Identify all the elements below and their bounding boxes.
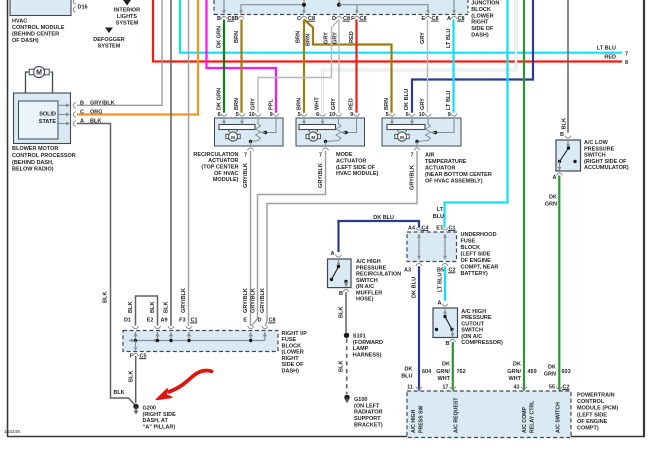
svg-text:GRY: GRY <box>420 32 426 44</box>
svg-text:GRY/BLK: GRY/BLK <box>243 163 249 188</box>
svg-text:LT BLU: LT BLU <box>438 273 444 292</box>
svg-text:459: 459 <box>528 369 537 375</box>
svg-text:7: 7 <box>319 152 322 158</box>
svg-text:DK BLU: DK BLU <box>412 277 418 298</box>
svg-text:ACCUMULATOR): ACCUMULATOR) <box>584 165 629 171</box>
svg-text:(LEFT SIDE: (LEFT SIDE <box>577 412 607 418</box>
svg-text:GRY/BLK: GRY/BLK <box>251 288 257 313</box>
svg-text:DK: DK <box>549 194 557 200</box>
svg-text:WHT: WHT <box>315 97 321 110</box>
svg-text:GRY/BLK: GRY/BLK <box>90 100 115 106</box>
svg-text:DK GRN: DK GRN <box>217 88 223 110</box>
svg-text:C: C <box>80 110 84 116</box>
svg-text:(LEFT SIDE OF: (LEFT SIDE OF <box>336 165 376 171</box>
svg-text:AIR: AIR <box>425 152 435 158</box>
svg-text:STATE: STATE <box>39 119 57 125</box>
svg-text:9: 9 <box>270 112 273 118</box>
svg-text:B: B <box>235 16 239 22</box>
svg-text:(NEAR BOTTOM CENTER: (NEAR BOTTOM CENTER <box>425 172 492 178</box>
svg-text:LAMP: LAMP <box>353 346 369 352</box>
svg-text:RIGHT: RIGHT <box>471 20 489 26</box>
svg-text:604: 604 <box>422 369 432 375</box>
svg-text:SWITCH: SWITCH <box>461 328 483 334</box>
svg-text:LT BLU: LT BLU <box>597 46 616 52</box>
svg-text:(IN A/C: (IN A/C <box>356 284 374 290</box>
svg-text:ACTUATOR: ACTUATOR <box>208 158 238 164</box>
svg-text:CONTROL PROCESSOR: CONTROL PROCESSOR <box>12 153 76 159</box>
svg-text:SUPPORT: SUPPORT <box>354 416 381 422</box>
svg-text:DK: DK <box>513 362 521 368</box>
svg-text:BLOCK: BLOCK <box>282 343 302 349</box>
svg-text:(LEFT SIDE: (LEFT SIDE <box>461 252 491 258</box>
svg-text:7: 7 <box>625 52 628 58</box>
svg-text:(BEHIND CENTER: (BEHIND CENTER <box>12 32 59 38</box>
svg-text:DK: DK <box>405 366 413 372</box>
svg-text:SIDE OF: SIDE OF <box>282 362 305 368</box>
svg-text:HVAC: HVAC <box>12 19 27 25</box>
svg-text:BLK: BLK <box>128 302 134 314</box>
svg-text:A/C HIGH: A/C HIGH <box>356 259 381 265</box>
svg-text:BLU: BLU <box>433 214 444 220</box>
svg-text:(BEHIND DASH,: (BEHIND DASH, <box>12 160 54 166</box>
svg-text:BRN: BRN <box>297 98 303 110</box>
svg-text:55: 55 <box>549 384 555 390</box>
svg-text:GRN: GRN <box>544 372 556 378</box>
svg-text:6: 6 <box>406 112 409 118</box>
svg-text:BLK: BLK <box>150 302 156 314</box>
svg-text:BLK: BLK <box>562 118 568 130</box>
svg-text:DASH): DASH) <box>282 368 300 374</box>
svg-text:“A” PILLAR): “A” PILLAR) <box>143 424 176 430</box>
svg-text:17: 17 <box>442 384 448 390</box>
svg-text:BELOW RADIO): BELOW RADIO) <box>12 167 54 173</box>
svg-text:BATTERY): BATTERY) <box>461 271 488 277</box>
svg-text:9: 9 <box>350 112 353 118</box>
svg-text:BLK: BLK <box>90 119 101 125</box>
svg-text:(TOP CENTER: (TOP CENTER <box>201 165 238 171</box>
svg-text:6: 6 <box>316 112 319 118</box>
svg-text:A/C REQUEST: A/C REQUEST <box>454 397 460 433</box>
svg-text:HOSE): HOSE) <box>356 297 374 303</box>
svg-text:B: B <box>339 291 343 297</box>
svg-text:BLK: BLK <box>129 371 135 383</box>
svg-text:M: M <box>400 135 404 140</box>
svg-text:7: 7 <box>244 152 247 158</box>
svg-text:MUFFLER: MUFFLER <box>356 290 382 296</box>
svg-text:FUSE: FUSE <box>282 337 297 343</box>
svg-text:DEFOGGER: DEFOGGER <box>93 37 125 43</box>
svg-text:PRESSURE: PRESSURE <box>356 265 387 271</box>
svg-text:PRESS SW: PRESS SW <box>419 406 425 433</box>
svg-text:LT BLU: LT BLU <box>446 91 452 110</box>
svg-text:RED: RED <box>604 55 616 61</box>
svg-text:DK GRN: DK GRN <box>217 26 223 48</box>
svg-text:GRY: GRY <box>324 32 330 44</box>
svg-text:E: E <box>243 318 247 324</box>
svg-text:5: 5 <box>236 112 239 118</box>
svg-text:DK BLU: DK BLU <box>404 89 410 110</box>
svg-text:B: B <box>446 341 450 347</box>
svg-text:6: 6 <box>218 112 221 118</box>
svg-text:BRN: BRN <box>384 98 390 110</box>
svg-text:RECIRCULATION: RECIRCULATION <box>356 272 401 278</box>
svg-text:(LOWER: (LOWER <box>282 350 304 356</box>
svg-text:B: B <box>560 132 564 138</box>
svg-text:M: M <box>311 135 315 140</box>
svg-text:LT BLU: LT BLU <box>446 29 452 48</box>
svg-text:43: 43 <box>513 384 519 390</box>
svg-text:INTERIOR: INTERIOR <box>114 8 140 14</box>
svg-text:DK: DK <box>548 364 556 370</box>
svg-text:COMPT): COMPT) <box>577 426 599 432</box>
svg-text:BRN: BRN <box>234 98 240 110</box>
svg-text:SWITCH: SWITCH <box>356 278 378 284</box>
svg-text:OF ENGINE: OF ENGINE <box>577 419 608 425</box>
svg-text:B: B <box>217 16 221 22</box>
svg-text:BLOWER MOTOR: BLOWER MOTOR <box>12 146 58 152</box>
svg-text:A: A <box>80 119 84 125</box>
svg-text:CONTROL: CONTROL <box>577 399 605 405</box>
svg-text:ACTUATOR: ACTUATOR <box>336 158 366 164</box>
svg-text:G100: G100 <box>354 397 367 403</box>
svg-text:A3: A3 <box>404 268 411 274</box>
svg-text:8: 8 <box>625 60 628 66</box>
svg-text:TEMPERATURE: TEMPERATURE <box>425 159 467 165</box>
svg-text:PPL: PPL <box>269 99 275 110</box>
svg-text:A/C COMP: A/C COMP <box>522 407 528 433</box>
svg-text:GRY: GRY <box>420 98 426 110</box>
svg-text:M: M <box>36 70 42 77</box>
svg-text:GRY/BLK: GRY/BLK <box>243 288 249 313</box>
svg-text:OF HVAC ASSEMBLY): OF HVAC ASSEMBLY) <box>425 179 483 185</box>
svg-text:LT: LT <box>437 207 444 213</box>
svg-text:OF DASH): OF DASH) <box>12 38 39 44</box>
svg-text:GRY: GRY <box>331 98 337 110</box>
svg-text:DK: DK <box>442 362 450 368</box>
svg-text:E2: E2 <box>147 318 154 324</box>
svg-text:SWITCH: SWITCH <box>584 153 606 159</box>
svg-text:SYSTEM: SYSTEM <box>98 44 121 50</box>
svg-text:GRY/BLK: GRY/BLK <box>260 288 266 313</box>
svg-text:GRY/BLK: GRY/BLK <box>410 165 416 190</box>
svg-text:GRN/: GRN/ <box>507 369 521 375</box>
svg-text:D: D <box>332 16 336 22</box>
svg-text:D1: D1 <box>124 318 131 324</box>
svg-text:10: 10 <box>249 112 255 118</box>
svg-text:S101: S101 <box>353 334 366 340</box>
svg-text:BRACKET): BRACKET) <box>354 422 383 428</box>
svg-text:F3: F3 <box>179 318 185 324</box>
svg-text:RED: RED <box>349 31 355 43</box>
svg-text:7: 7 <box>410 152 413 158</box>
svg-text:HVAC MODULE): HVAC MODULE) <box>336 171 379 177</box>
svg-text:FUSE: FUSE <box>461 239 476 245</box>
svg-text:COMPT, NEAR: COMPT, NEAR <box>461 265 499 271</box>
svg-text:(FORWARD: (FORWARD <box>353 340 383 346</box>
svg-text:A/C HIGH: A/C HIGH <box>461 309 486 315</box>
svg-text:ACTUATOR: ACTUATOR <box>425 166 455 172</box>
svg-text:A: A <box>331 251 335 257</box>
svg-text:D: D <box>258 318 262 324</box>
svg-text:GRY: GRY <box>251 98 257 110</box>
svg-text:(LOWER: (LOWER <box>471 13 493 19</box>
svg-text:G200: G200 <box>143 406 156 412</box>
svg-text:10: 10 <box>419 112 425 118</box>
svg-text:UNDERHOOD: UNDERHOOD <box>461 232 497 238</box>
svg-text:CUTOUT: CUTOUT <box>461 321 484 327</box>
svg-text:GRY: GRY <box>333 32 339 44</box>
svg-text:JUNCTION: JUNCTION <box>471 1 499 7</box>
svg-text:BRN: BRN <box>296 31 302 43</box>
svg-text:BLK: BLK <box>339 361 345 373</box>
svg-text:HARNESS): HARNESS) <box>353 352 382 358</box>
svg-text:(RIGHT SIDE OF: (RIGHT SIDE OF <box>584 159 627 165</box>
svg-text:DASH): DASH) <box>471 32 489 38</box>
svg-text:BLOCK: BLOCK <box>461 245 481 251</box>
svg-text:GRN/: GRN/ <box>436 369 450 375</box>
svg-text:10: 10 <box>329 112 335 118</box>
svg-text:OF ENGINE: OF ENGINE <box>461 258 492 264</box>
svg-text:RED: RED <box>349 98 355 110</box>
svg-text:BLK: BLK <box>103 292 109 304</box>
svg-text:153246: 153246 <box>4 429 20 435</box>
svg-text:ORG: ORG <box>90 110 103 116</box>
svg-text:WHT: WHT <box>508 376 521 382</box>
svg-text:BLK: BLK <box>164 302 170 314</box>
svg-text:DK BLU: DK BLU <box>373 215 394 221</box>
svg-text:SIDE OF: SIDE OF <box>471 26 494 32</box>
svg-text:CONTROL MODULE: CONTROL MODULE <box>12 25 65 31</box>
svg-text:5: 5 <box>298 112 301 118</box>
svg-text:5: 5 <box>386 112 389 118</box>
svg-text:SOLID: SOLID <box>39 112 56 118</box>
svg-text:E7: E7 <box>436 225 443 231</box>
svg-text:(RIGHT SIDE: (RIGHT SIDE <box>143 412 177 418</box>
svg-text:D16: D16 <box>78 5 88 11</box>
svg-text:MODULE): MODULE) <box>213 177 239 183</box>
svg-text:SYSTEM: SYSTEM <box>116 21 139 27</box>
svg-text:BLK: BLK <box>113 390 124 396</box>
svg-text:A4: A4 <box>408 225 416 231</box>
svg-text:B: B <box>80 100 84 106</box>
svg-text:M: M <box>231 135 235 140</box>
svg-text:A/C LOW: A/C LOW <box>584 140 609 146</box>
svg-text:9: 9 <box>448 112 451 118</box>
svg-text:E: E <box>421 16 425 22</box>
svg-text:11: 11 <box>407 384 413 390</box>
svg-text:GRY/BLK: GRY/BLK <box>318 163 324 188</box>
svg-text:RELAY CTRL: RELAY CTRL <box>529 400 535 433</box>
svg-text:MODULE (PCM): MODULE (PCM) <box>577 406 618 412</box>
svg-text:PRESSURE: PRESSURE <box>461 315 492 321</box>
svg-text:DASH, AT: DASH, AT <box>143 418 169 424</box>
svg-text:A/C HIGH: A/C HIGH <box>411 409 417 433</box>
svg-text:RADIATOR: RADIATOR <box>354 410 383 416</box>
svg-text:BLU: BLU <box>401 374 412 380</box>
svg-text:MODE: MODE <box>336 152 353 158</box>
svg-text:GRN: GRN <box>545 202 557 208</box>
svg-text:603: 603 <box>562 369 571 375</box>
svg-text:762: 762 <box>457 369 466 375</box>
svg-text:RECIRCULATION: RECIRCULATION <box>193 152 238 158</box>
svg-text:LIGHTS: LIGHTS <box>117 14 137 20</box>
svg-text:POWERTRAIN: POWERTRAIN <box>577 392 615 398</box>
svg-text:A/C SWITCH: A/C SWITCH <box>556 402 562 433</box>
svg-text:A9: A9 <box>160 318 167 324</box>
svg-text:(ON A/C: (ON A/C <box>461 334 482 340</box>
svg-text:BLOCK: BLOCK <box>471 7 491 13</box>
svg-text:OF HVAC: OF HVAC <box>214 171 238 177</box>
svg-text:GRY/BLK: GRY/BLK <box>181 288 187 313</box>
svg-text:WHT: WHT <box>437 376 450 382</box>
svg-text:BRN: BRN <box>234 31 240 43</box>
svg-text:A: A <box>553 175 557 181</box>
svg-text:C: C <box>297 16 301 22</box>
svg-text:BRN: BRN <box>306 34 312 46</box>
svg-text:BLK: BLK <box>339 307 345 319</box>
svg-text:A: A <box>438 300 442 306</box>
svg-text:RIGHT: RIGHT <box>282 356 300 362</box>
svg-text:A: A <box>447 16 451 22</box>
svg-text:PRESSURE: PRESSURE <box>584 146 615 152</box>
svg-text:(ON LEFT: (ON LEFT <box>354 403 380 409</box>
svg-text:RIGHT I/P: RIGHT I/P <box>282 331 308 337</box>
svg-text:COMPRESSOR): COMPRESSOR) <box>461 340 503 346</box>
